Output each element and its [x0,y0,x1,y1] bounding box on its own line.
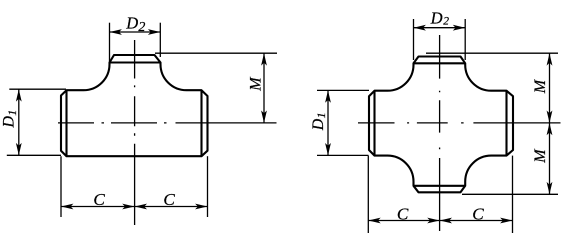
cross dimension D1 top extension line [317,89,369,91]
cross dimension C right extension line [512,156,514,233]
svg-text:2: 2 [138,20,145,35]
label M (rotated) [248,76,265,92]
cross vertical centerline [439,35,441,231]
cross body outline [369,57,513,193]
cross dimension M (lower) line with arrows [549,123,551,194]
cross dimension D2 right extension line [464,19,466,60]
cross dimension D1 bottom extension line [317,154,369,156]
cross right end bevel line [505,91,507,156]
tee left end bevel line [65,90,67,156]
dimension M extension line (from branch top face) [155,52,277,54]
dimension C left extension line [60,156,62,217]
dimension D2 right extension line [159,23,161,57]
cross horizontal centerline [358,122,561,124]
svg-text:D: D [1,116,18,129]
svg-text:C: C [163,190,175,209]
tee branch bevel line [110,61,161,63]
dimension C (left half) line with arrows [61,206,135,208]
label M lower (rotated) [532,148,549,164]
cross dimension M top extension line [426,52,558,54]
svg-text:M: M [532,78,549,94]
svg-text:D: D [125,14,138,33]
dimension D1 line with arrows [18,89,20,155]
tee vertical centerline [134,40,136,225]
cross dimension D2 left extension line [413,19,415,60]
cross dimension C (left half) line with arrows [368,220,439,222]
dimension D2 line with arrows [110,31,161,33]
dimension C right extension line [207,156,209,217]
svg-text:1: 1 [314,112,328,118]
cross dimension M bottom extension line [462,193,558,195]
cross top branch bevel line [414,62,466,64]
cross left end bevel line [373,91,375,156]
dimension D1 top extension line [9,88,66,90]
dimension D2 left extension line [109,23,111,62]
label D1 (cross, rotated) [310,112,328,131]
svg-text:M: M [532,148,549,164]
svg-text:C: C [472,204,484,223]
cross bottom branch bevel line [414,185,466,187]
svg-text:2: 2 [443,16,449,28]
svg-text:C: C [397,204,409,223]
cross dimension C (right half) line with arrows [440,220,513,222]
cross dimension C left extension line [367,156,369,233]
dimension C (right half) line with arrows [135,206,208,208]
label D1 (rotated) [1,110,19,129]
dimension M line with arrows [263,53,265,123]
cross dimension M (upper) line with arrows [549,53,551,123]
cross dimension D2 line with arrows [414,27,466,29]
tee body outline [61,55,208,156]
label M upper (rotated) [532,78,549,94]
svg-text:M: M [248,76,265,92]
dimension D1 bottom extension line [7,154,61,156]
svg-text:1: 1 [5,110,19,116]
svg-text:D: D [310,118,327,131]
svg-text:D: D [430,9,443,28]
svg-text:C: C [93,190,105,209]
cross dimension D1 line with arrows [327,90,329,155]
tee right end bevel line [200,90,202,156]
tee horizontal centerline (extends right as M extension) [58,122,277,124]
